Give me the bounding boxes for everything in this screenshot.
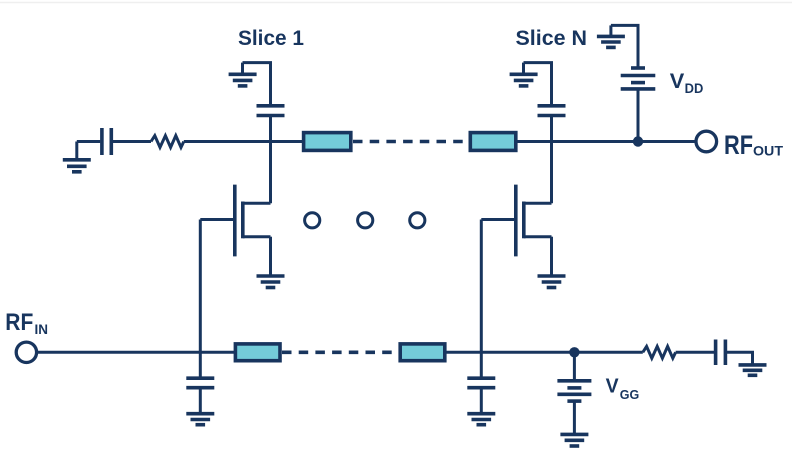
svg-text:OUT: OUT <box>753 144 783 160</box>
svg-text:Slice 1: Slice 1 <box>238 26 304 50</box>
transistor M1 (Slice 1 FET) <box>200 185 270 276</box>
capacitor: Slice 1 drain bypass <box>257 106 285 116</box>
wire: TL4 to resistor R2 (passes Slice N gate column and VGG node) <box>445 351 643 354</box>
wire: Slice N drain column <box>550 116 553 204</box>
ellipsis dots (repeated slices) <box>305 213 425 228</box>
wire: Slice N gate shunt column <box>480 352 483 378</box>
svg-text:DD: DD <box>685 80 704 96</box>
svg-text:V: V <box>606 375 620 397</box>
svg-text:IN: IN <box>35 321 49 337</box>
wire: ground G1 to capacitor C1 <box>77 140 101 143</box>
capacitor C5 (gate-line termination cap) <box>716 340 726 366</box>
transmission line TL4 (gate line, Slice N) <box>400 344 445 361</box>
ground: Slice 1 source <box>257 276 285 288</box>
transistor MN (Slice N FET) <box>481 185 551 276</box>
ground: Slice N top <box>510 63 538 86</box>
capacitor: Slice 1 gate shunt <box>186 378 214 388</box>
wire: VGG battery to ground <box>573 401 576 434</box>
dashed wire: gate line continuation <box>282 350 399 354</box>
wire: Slice 1 drain column (bypass cap through drain line to FET drain) <box>269 116 272 204</box>
wire: R2 to capacitor C5 <box>676 351 714 354</box>
transmission line TL2 (drain line, Slice N) <box>470 133 516 151</box>
capacitor C1 (drain-line termination cap) <box>102 128 111 155</box>
ground: Slice 1 top <box>229 63 257 86</box>
svg-text:RF: RF <box>5 309 33 336</box>
wire: Slice 1 top ground to bypass capacitor <box>243 63 271 106</box>
ground G7 (gate-line termination ground) <box>739 365 767 375</box>
ground: VGG supply <box>560 434 588 446</box>
wire: TL2 to RF_OUT (passes Slice N column and VDD node) <box>516 140 696 143</box>
capacitor: Slice N drain bypass <box>538 106 566 116</box>
ground: VDD supply (top-right) <box>597 25 625 47</box>
wire: RF_IN to TL3 (gate line, passes Slice 1 gate column) <box>37 351 236 354</box>
wire: C5 to ground G7 <box>727 352 753 365</box>
svg-text:V: V <box>670 69 685 93</box>
svg-text:Slice N: Slice N <box>516 26 588 50</box>
wire: VDD ground to battery <box>611 25 638 68</box>
terminal RF_IN <box>16 342 36 362</box>
wire: Slice N gate shunt cap to ground <box>480 388 483 414</box>
dashed wire: drain line continuation <box>353 140 469 144</box>
node: drain line / VDD junction <box>633 136 643 146</box>
ground: Slice N source <box>538 276 566 288</box>
wire: C1 to resistor R1 <box>113 140 151 143</box>
ground G1 (drain-line termination ground, top-left) <box>63 142 91 172</box>
battery VGG <box>557 381 591 401</box>
ground: Slice N gate shunt <box>467 414 495 425</box>
ground: Slice 1 gate shunt <box>186 414 214 425</box>
svg-text:GG: GG <box>620 387 640 402</box>
battery VDD <box>621 68 656 89</box>
capacitor: Slice N gate shunt <box>467 378 495 388</box>
wire: Slice 1 gate column (FET gate down to gate line) <box>199 220 202 353</box>
svg-text:RF: RF <box>724 130 753 160</box>
wire: Slice 1 gate shunt column <box>199 352 202 378</box>
wire: Slice N gate column <box>480 220 483 353</box>
transmission line TL3 (gate line, Slice 1) <box>235 344 280 361</box>
transmission line TL1 (drain line, Slice 1) <box>304 133 351 151</box>
wire: VDD battery to drain line <box>637 89 640 142</box>
node: gate line / VGG junction <box>569 347 579 357</box>
wire: VGG node to battery <box>573 352 576 381</box>
resistor R2 (gate-line termination) <box>643 346 676 358</box>
resistor R1 (drain-line termination) <box>151 136 184 148</box>
wire: Slice N top ground to bypass capacitor <box>524 63 552 106</box>
terminal RF_OUT <box>696 131 717 152</box>
wire: R1 to transmission line TL1 (drain line, passes Slice 1 column) <box>184 140 304 143</box>
wire: Slice 1 gate shunt cap to ground <box>199 388 202 414</box>
